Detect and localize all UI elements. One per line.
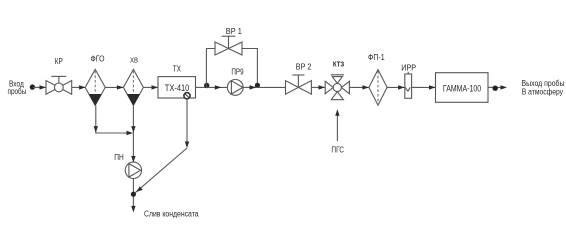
wire ПР9 to node B <box>243 85 257 89</box>
solenoid valve КТЗ <box>325 75 349 100</box>
svg-text:ТХ-410: ТХ-410 <box>165 83 190 93</box>
svg-text:КТЗ: КТЗ <box>333 61 345 68</box>
svg-text:КР: КР <box>55 57 63 66</box>
cooler ХВ <box>123 69 143 105</box>
wire ФГО to ХВ <box>105 85 123 89</box>
wire node A to ПР9 <box>206 85 227 89</box>
filter ФП-1 <box>369 70 387 106</box>
wire ВР2 to КТЗ <box>311 85 325 89</box>
wire bypass right riser <box>242 49 257 88</box>
wire ИРР to ГАММА-100 <box>412 85 436 89</box>
wire ФГО drain <box>94 106 133 135</box>
svg-text:ИРР: ИРР <box>401 64 416 73</box>
svg-text:ВР 2: ВР 2 <box>296 62 312 71</box>
label Вход пробы <box>8 79 27 96</box>
svg-text:Слив конденсата: Слив конденсата <box>144 209 199 218</box>
wire ТХ drain diagonal to node C <box>135 148 187 193</box>
pump ПР9 <box>227 80 243 96</box>
svg-text:пробы: пробы <box>8 87 27 96</box>
node inlet <box>30 84 35 89</box>
valve КР (ball valve) <box>46 76 72 94</box>
node outlet <box>493 86 498 91</box>
arrow outlet <box>501 85 508 89</box>
pump ПН <box>125 162 141 178</box>
wire ПГС to КТЗ <box>335 109 339 141</box>
filter ФГО <box>85 69 105 105</box>
svg-text:ПГС: ПГС <box>331 146 344 155</box>
node drain C <box>131 192 136 197</box>
chiller block ТХ-410 <box>158 77 196 98</box>
wire ГАММА-100 to outlet <box>488 86 502 88</box>
wire ФП-1 to ИРР <box>387 85 405 89</box>
node A <box>204 83 209 88</box>
svg-text:ВР 1: ВР 1 <box>226 27 243 36</box>
svg-text:ФГО: ФГО <box>91 55 105 64</box>
wire ТХ drain vertical <box>185 99 189 148</box>
wire ПН to drain node <box>132 179 134 208</box>
svg-text:ПР9: ПР9 <box>231 67 244 76</box>
analyzer ГАММА-100 <box>436 73 489 103</box>
wire ХВ to ТХ <box>143 85 158 89</box>
wire node B to ВР2 <box>257 86 285 88</box>
svg-text:В атмосферу: В атмосферу <box>522 86 564 96</box>
svg-text:ХВ: ХВ <box>130 57 138 64</box>
svg-text:ТХ: ТХ <box>173 64 182 73</box>
label Выход пробы В атмосферу <box>522 78 565 97</box>
drain port on ТХ <box>184 93 190 99</box>
node B <box>255 83 260 88</box>
wire inlet to КР <box>33 85 46 89</box>
wire КТЗ to ФП-1 <box>349 85 369 89</box>
wire ТХ to node A <box>196 86 207 88</box>
rotameter ИРР <box>405 72 412 99</box>
svg-text:ПН: ПН <box>114 153 124 162</box>
svg-text:ГАММА-100: ГАММА-100 <box>443 83 481 94</box>
valve ВР2 <box>286 75 312 94</box>
wire bypass left riser <box>206 49 215 88</box>
wire ХВ drain down to pump <box>131 106 135 163</box>
svg-text:ФП-1: ФП-1 <box>368 53 385 62</box>
valve ВР1 <box>215 36 242 55</box>
wire КР to ФГО <box>72 85 86 89</box>
arrow drain outlet <box>131 206 135 213</box>
